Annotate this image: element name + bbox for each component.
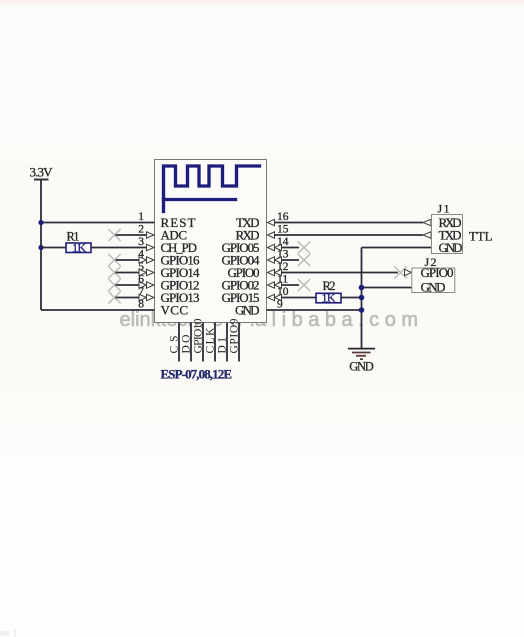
junction dot rail/J2 GND: [359, 285, 365, 291]
wire pin7 stub: [116, 297, 140, 299]
U1 bottom pad wire CLK: [214, 323, 216, 362]
svg-text:3: 3: [138, 236, 144, 248]
wire pin9 GND to rail: [267, 309, 362, 311]
wire pin14 stub: [282, 247, 300, 249]
junction dot rail/R2: [359, 295, 365, 301]
J2 GPIO0 port arrow: [405, 269, 412, 275]
U1 bottom pad wire GPIO10: [202, 323, 204, 362]
svg-text:CLK: CLK: [205, 327, 217, 354]
ground symbol bar 1: [348, 348, 375, 350]
wire pin5 stub: [116, 272, 140, 274]
U1 bottom pad wire DO: [190, 323, 192, 362]
svg-text:GPIO9: GPIO9: [229, 318, 241, 353]
pin 12 port double arrow: [268, 269, 275, 275]
power symbol 3.3V bar: [34, 179, 49, 181]
wire R1 to pin3 CH_PD: [91, 247, 147, 249]
U1 bottom pad wire CS: [178, 323, 180, 362]
pin 4 port double arrow: [139, 257, 147, 263]
PCB antenna meander inside U1: [164, 166, 260, 212]
svg-text:15: 15: [277, 224, 289, 236]
wire pin10 GPIO15 to R2: [282, 297, 317, 299]
watermark text: [120, 309, 419, 331]
no-connect X pin2: [108, 229, 120, 241]
no-connect X pin5: [108, 267, 120, 279]
wire pin11 stub: [282, 284, 300, 286]
pin 10 port double arrow: [268, 294, 275, 300]
resistor R2 body: [316, 293, 341, 303]
junction dot 3.3V/R1: [38, 245, 43, 250]
pin 7 port double arrow: [139, 294, 147, 300]
svg-text:J1: J1: [438, 202, 450, 216]
X mark at J2 GPIO0 port: [394, 267, 406, 279]
IC U1 ESP module body: [155, 160, 267, 323]
ground symbol bar 2: [352, 352, 371, 354]
svg-text:GPIO10: GPIO10: [193, 318, 205, 353]
ground symbol bar 4: [360, 358, 363, 360]
junction dot 3.3V/pin1: [38, 220, 43, 225]
ground symbol bar 3: [356, 355, 366, 357]
wire J1 GND to rail: [362, 247, 432, 249]
pin 3 port arrow: [147, 244, 155, 250]
wire R2 to GND rail: [341, 297, 362, 299]
svg-text:GND: GND: [349, 360, 374, 374]
no-connect X pin14: [298, 242, 310, 254]
no-connect X pin6: [108, 279, 120, 291]
wire pin4 stub: [116, 259, 140, 261]
wire pin8 VCC to 3.3V: [41, 309, 155, 311]
wire pin12 GPIO0 to J2: [282, 272, 399, 274]
svg-text:GND: GND: [421, 280, 446, 295]
svg-text:GND: GND: [235, 303, 260, 318]
no-connect X pin13: [298, 254, 310, 266]
wire pin6 stub: [116, 284, 140, 286]
svg-text:GPIO0: GPIO0: [421, 265, 454, 280]
connector J2 body: [412, 268, 455, 293]
wire pin13 stub: [282, 259, 300, 261]
pin 13 port double arrow: [268, 257, 275, 263]
svg-text:GND: GND: [439, 240, 463, 255]
svg-text:VCC: VCC: [161, 303, 189, 318]
J1 TXD port arrow: [423, 232, 431, 238]
wire pin15 RXD to J1 TXD: [275, 234, 424, 236]
connector J1 body: [432, 215, 463, 254]
U1 bottom pad wire D1: [226, 323, 228, 362]
svg-text:1K: 1K: [72, 240, 86, 254]
wire pin16 TXD to J1 RXD: [275, 222, 424, 224]
no-connect X pin4: [108, 254, 120, 266]
svg-text:1: 1: [138, 211, 144, 223]
pin 16 port arrow: [268, 219, 275, 225]
pin 5 port double arrow: [139, 269, 147, 275]
wire GND vertical rail: [361, 248, 363, 349]
pin 11 port double arrow: [268, 282, 275, 288]
wire J2 GND to rail: [362, 287, 412, 289]
junction dot rail/pin9: [359, 307, 365, 313]
svg-text:ESP-07,08,12E: ESP-07,08,12E: [161, 367, 233, 382]
wire pin2 ADC stub: [116, 234, 147, 236]
no-connect X pin11: [298, 279, 310, 291]
svg-text:3.3V: 3.3V: [30, 165, 54, 180]
wire pin1 REST to 3.3V: [41, 222, 155, 224]
svg-text:TTL: TTL: [469, 230, 493, 244]
pin 14 port double arrow: [268, 244, 275, 250]
svg-text:1K: 1K: [322, 291, 336, 305]
no-connect X pin7: [108, 292, 120, 304]
J1 RXD port arrow: [423, 219, 431, 225]
wire 3.3V to R1: [41, 247, 66, 249]
svg-text:2: 2: [138, 224, 144, 236]
U1 bottom pad wire GPIO9: [238, 323, 240, 362]
pin 15 port arrow: [268, 232, 275, 238]
svg-text:16: 16: [277, 211, 289, 223]
resistor R1 body: [66, 243, 91, 253]
wire 3.3V vertical rail: [40, 180, 42, 311]
pin 2 port arrow: [147, 232, 155, 238]
pin 6 port double arrow: [139, 282, 147, 288]
